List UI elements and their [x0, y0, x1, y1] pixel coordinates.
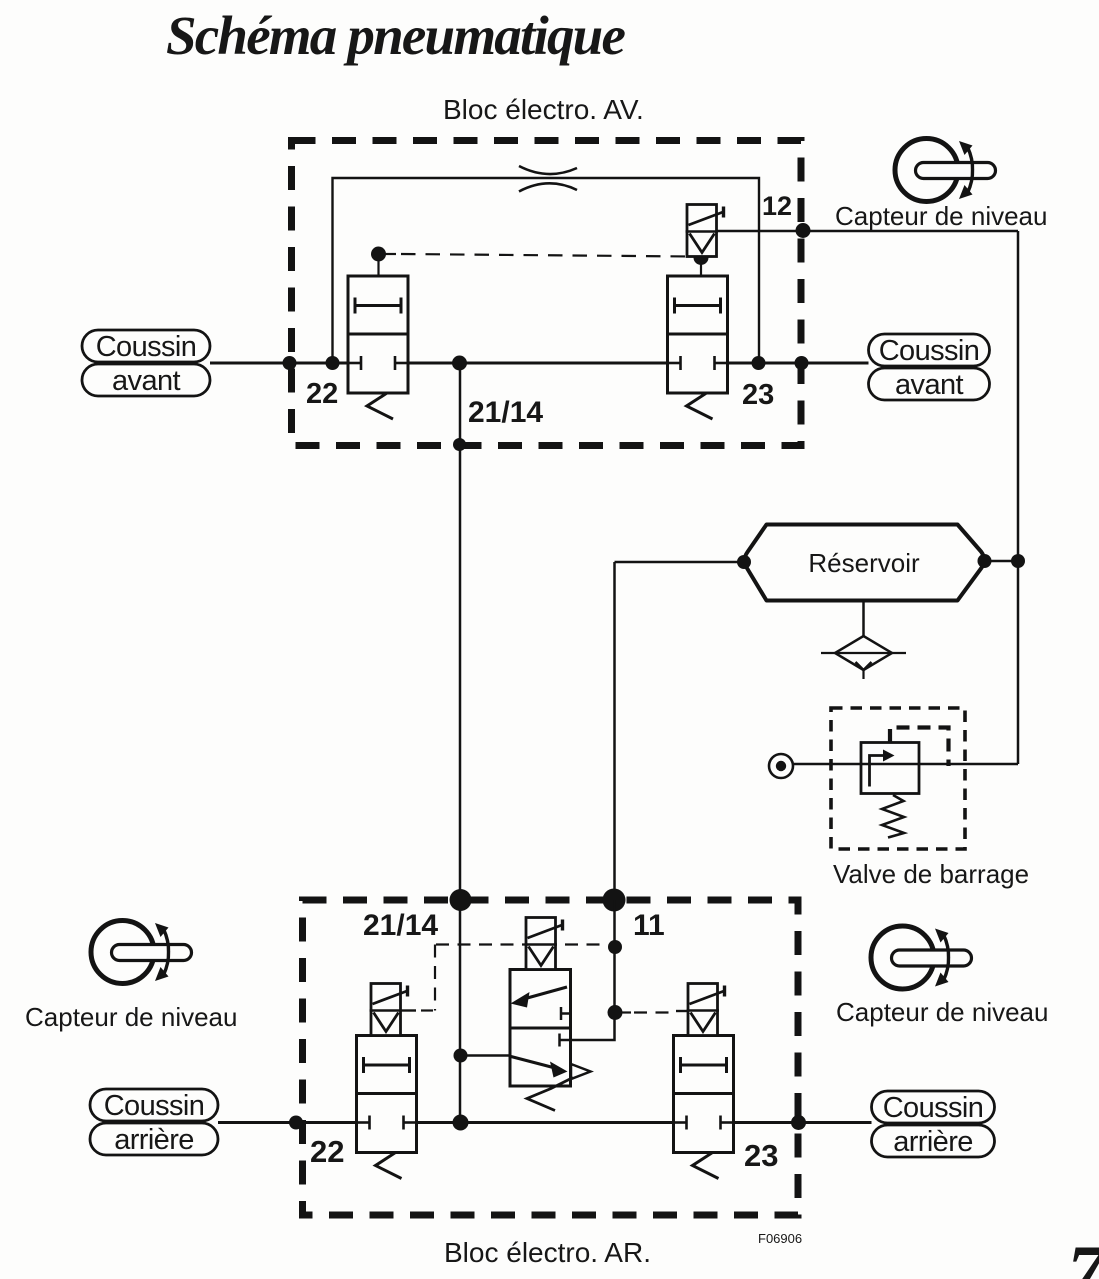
valve 11 exhaust open triangle	[571, 1064, 591, 1079]
pilot head of valve 23 AR	[687, 984, 725, 1036]
svg-text:21/14: 21/14	[363, 909, 438, 942]
pilot tap node above valve 22	[371, 247, 386, 262]
wire: trunk to valve 11 left port	[460, 1054, 510, 1057]
valve 23 (bloc AR)	[674, 1036, 734, 1179]
valve 22 (bloc AR)	[357, 1036, 417, 1179]
node on right vertical wire	[1011, 554, 1025, 568]
barrage input port circle	[769, 754, 793, 778]
svg-text:avant: avant	[112, 365, 180, 397]
svg-text:23: 23	[742, 379, 774, 411]
regulator arrow	[870, 756, 885, 787]
svg-text:Capteur de niveau: Capteur de niveau	[836, 997, 1048, 1027]
wire: vertical trunk 21/14 from bloc AV to bloc AR	[459, 363, 462, 1123]
svg-text:Capteur de niveau: Capteur de niveau	[835, 201, 1047, 231]
node: AR border left on main line	[289, 1116, 303, 1130]
node: loop left junction	[326, 356, 340, 370]
wire: barrage through line	[794, 763, 1019, 766]
node: junction to vertical trunk 21/14	[452, 356, 467, 371]
svg-text:7: 7	[1067, 1231, 1099, 1279]
wire: réservoir right port	[986, 560, 1018, 563]
coussin arrière right pills	[872, 1091, 995, 1157]
svg-text:22: 22	[310, 1134, 344, 1169]
wire: feed down to valve 11 right port	[571, 900, 615, 1040]
regulator spring	[882, 795, 904, 838]
wire: coussin avant left to valve 22	[210, 362, 348, 365]
node: trunk 21/14 on AR top border	[450, 889, 472, 911]
svg-text:Coussin: Coussin	[883, 1092, 984, 1124]
wire: valve 23 to coussin avant right	[728, 362, 869, 365]
node: trunk on AR main line	[453, 1115, 469, 1131]
svg-text:21/14: 21/14	[468, 396, 543, 429]
node on feed wire (pilot tap)	[608, 940, 622, 954]
capteur de niveau (bottom right)	[871, 926, 972, 989]
svg-text:Coussin: Coussin	[104, 1090, 205, 1122]
svg-text:12: 12	[762, 191, 792, 221]
capteur de niveau (top right)	[895, 139, 996, 202]
valve 11 body	[510, 970, 571, 1087]
pilot valve 12	[686, 205, 724, 257]
wire: réservoir left port to bloc AR trunk	[615, 561, 744, 564]
pilot node above valve 23	[694, 250, 709, 265]
valve 22 (bloc AV)	[348, 276, 408, 419]
svg-text:Réservoir: Réservoir	[808, 548, 920, 578]
pilot dashed line to valve 23 AR	[634, 1011, 674, 1013]
pilot head of valve 22 AR	[370, 984, 408, 1036]
wire: right side vertical down to réservoir and valve de barrage	[1017, 231, 1020, 764]
capteur de niveau (bottom left)	[91, 921, 192, 984]
svg-text:Coussin: Coussin	[879, 335, 980, 367]
wire: valve 22 to valve 23	[408, 362, 668, 365]
node on feed wire (to valve 23 pilot)	[608, 1005, 623, 1020]
pressure regulator body	[861, 743, 919, 794]
pilot head of valve 11	[525, 918, 563, 970]
pilot dashed line from feed to valve 11 pilot and valve 22 AR pilot	[436, 943, 608, 945]
bloc électro AV dashed enclosure	[292, 141, 802, 446]
svg-text:Valve de barrage: Valve de barrage	[833, 859, 1029, 889]
wire: bypass loop around valves 22/23	[333, 178, 760, 363]
valve 11 flow arrow (bottom square)	[511, 1057, 557, 1069]
valve de barrage dashed enclosure	[831, 708, 965, 849]
valve 11 exhaust arrow (top square)	[520, 987, 567, 1000]
node: border left on main AV line	[283, 356, 297, 370]
svg-text:22: 22	[306, 378, 338, 410]
wire: valve 22 AR to valve 23 AR	[417, 1121, 674, 1124]
svg-text:Schéma pneumatique: Schéma pneumatique	[166, 5, 625, 66]
wire: coussin arrière left to valve 22 AR	[218, 1121, 357, 1124]
coussin arrière left pills	[90, 1089, 218, 1155]
valve 11 spring	[527, 1078, 573, 1111]
svg-text:avant: avant	[895, 369, 963, 401]
node on AV bottom border	[453, 438, 466, 451]
bloc électro AR dashed enclosure	[303, 900, 799, 1215]
node on AV border (12 line)	[796, 223, 811, 238]
svg-text:arrière: arrière	[893, 1126, 973, 1158]
valve 11 closed port (top square)	[561, 1012, 571, 1015]
node: loop right junction	[752, 356, 766, 370]
wire: pilot 12 output to level sensor line	[717, 230, 1019, 233]
regulator pilot dashed loop	[890, 728, 949, 767]
node: réservoir feed on AR top border	[603, 889, 626, 912]
svg-text:arrière: arrière	[114, 1124, 194, 1156]
svg-text:11: 11	[633, 909, 665, 942]
svg-text:Bloc électro. AV.: Bloc électro. AV.	[443, 94, 644, 125]
wire: valve 23 AR to coussin arrière right	[734, 1121, 872, 1124]
valve 23 (bloc AV)	[668, 276, 728, 419]
restrictor on bypass loop	[519, 166, 577, 174]
node on trunk at valve 11 port	[454, 1049, 468, 1063]
valve 11 inlet port with tick (bottom square)	[560, 1039, 571, 1042]
réservoir	[745, 525, 985, 601]
coussin avant left pills	[82, 330, 210, 396]
svg-text:Coussin: Coussin	[96, 331, 197, 363]
node réservoir right port	[978, 554, 992, 568]
pilot control dashed line 22 to 23	[401, 254, 693, 257]
svg-text:F06906: F06906	[758, 1231, 802, 1246]
node: AR border right on main line	[791, 1115, 806, 1130]
svg-text:Capteur de niveau: Capteur de niveau	[25, 1002, 237, 1032]
réservoir drain symbol	[862, 601, 865, 638]
node: border right on main AV line	[795, 356, 809, 370]
coussin avant right pills	[869, 334, 990, 400]
svg-text:23: 23	[744, 1138, 778, 1173]
node réservoir left port	[737, 555, 751, 569]
svg-text:Bloc électro. AR.: Bloc électro. AR.	[444, 1237, 651, 1268]
